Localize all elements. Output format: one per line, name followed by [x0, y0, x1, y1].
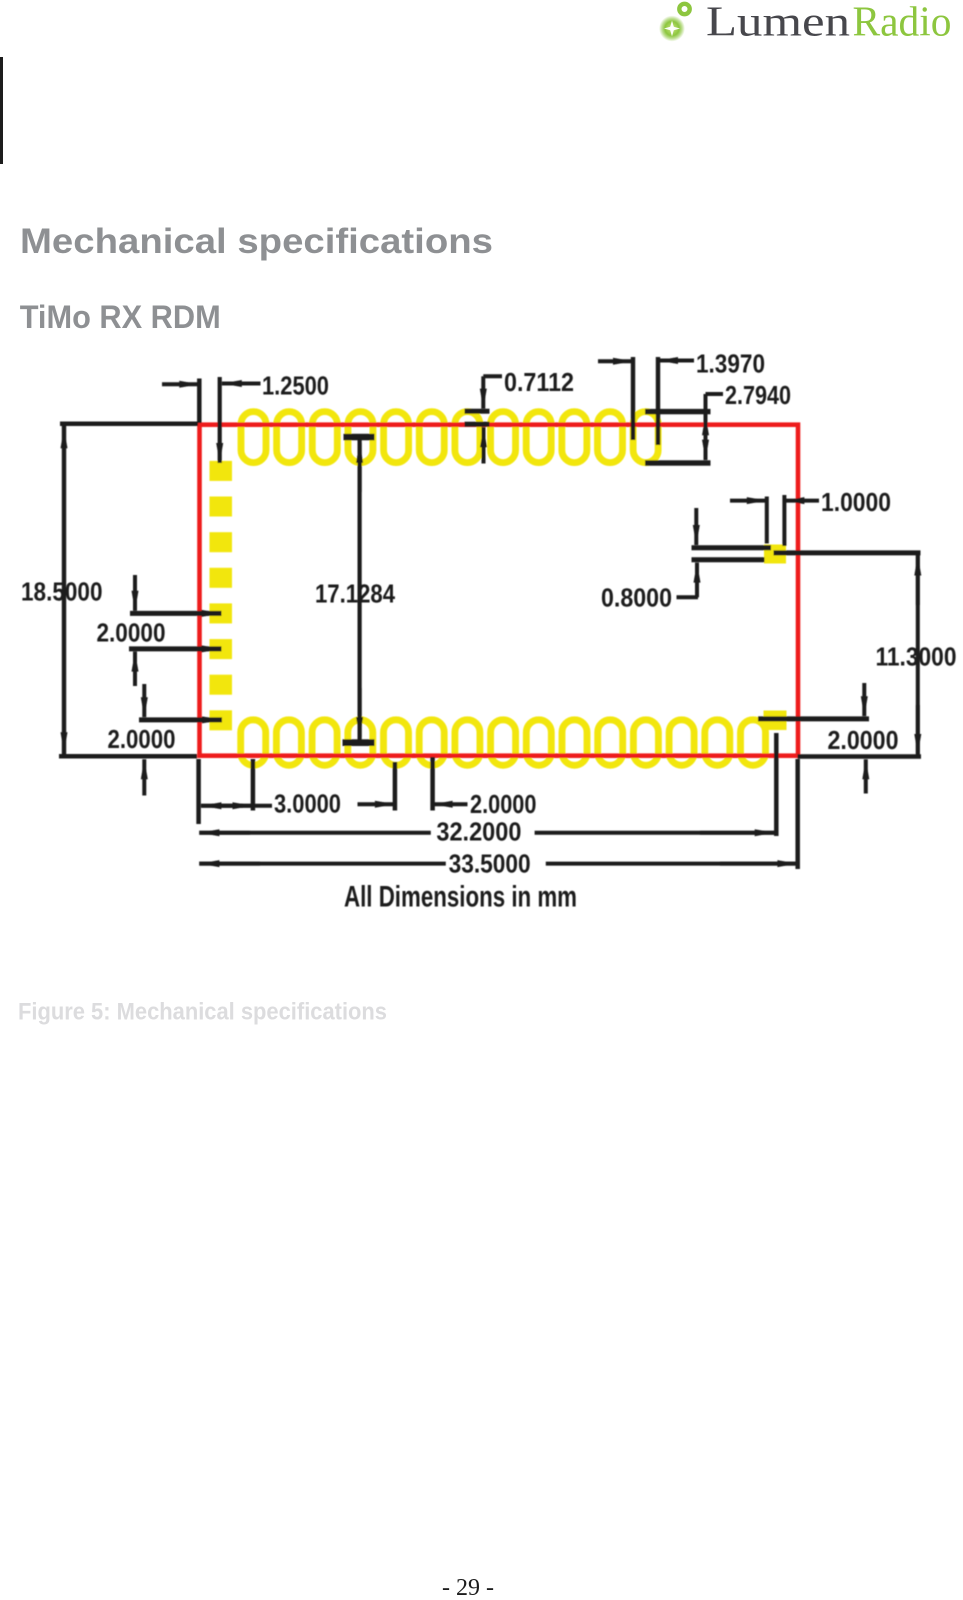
- dim 18.5000 bottom extension line: [59, 754, 197, 759]
- dim 17.1284 arrow up: [358, 443, 362, 492]
- dim 32.2000 right extension line: [774, 733, 779, 836]
- dim 17.1284 dim line: [358, 440, 362, 740]
- dim 33.5000 line left part: [199, 862, 446, 866]
- dim 11.3000 dim line: [916, 554, 920, 756]
- svg-text:Figure 5: Mechanical specifica: Figure 5: Mechanical specifications: [18, 999, 387, 1026]
- right side pad (mid): [764, 545, 786, 564]
- dim 2.7940 leader horizontal: [706, 392, 724, 396]
- svg-text:2.0000: 2.0000: [108, 724, 176, 754]
- dim 0.8000 arrow down: [694, 508, 698, 545]
- dim 33.5000 arrow right: [720, 862, 797, 866]
- dim 2.7940 bottom bar: [645, 460, 711, 465]
- dim 0.7112 upper arrow: [481, 376, 485, 408]
- dim 0.8000 leader: [677, 595, 699, 599]
- dim 2.7940 arrow up: [704, 415, 708, 436]
- dim 3.0000 arrow left: [201, 804, 243, 808]
- dim 1.3970 extension line right: [656, 357, 660, 445]
- dim 3.0000 dim line: [201, 804, 272, 808]
- dim 3.0000 extension (pad1 center): [251, 759, 256, 811]
- dim 0.8000 arrow up: [695, 563, 699, 598]
- svg-text:- 29 -: - 29 -: [442, 1575, 494, 1595]
- svg-text:2.0000: 2.0000: [97, 618, 166, 648]
- dim right 2.0000 arrow up: [864, 759, 868, 793]
- header rule fragment top-left: [0, 57, 3, 164]
- svg-text:1.3970: 1.3970: [696, 349, 765, 379]
- svg-text:18.5000: 18.5000: [21, 577, 103, 607]
- dim 2.7940 top bar: [645, 409, 711, 414]
- dim left 2.0000 lower ref line: [139, 717, 222, 722]
- dim 11.3000 top ref line: [774, 550, 921, 555]
- dim 1.3970 extension line left: [631, 357, 635, 440]
- svg-text:2.0000: 2.0000: [470, 789, 537, 819]
- dim 1.3970 right arrow: [658, 359, 694, 363]
- svg-text:2.7940: 2.7940: [725, 380, 791, 410]
- top castellated pads row: [241, 412, 658, 463]
- dim 11.3000 arrow down: [916, 705, 920, 754]
- dim 0.7112 lower arrow: [482, 427, 486, 463]
- dim 2.7940 arrow down: [704, 438, 708, 460]
- dim 2.7940 leader vertical: [704, 394, 708, 460]
- dim 1.2500 right arrow: [222, 382, 261, 386]
- dim left 2.0000 lower ref line: [129, 646, 222, 651]
- svg-text:1.0000: 1.0000: [821, 487, 891, 517]
- dim left 2.0000 arrow down: [133, 575, 137, 611]
- dim 17.1284 arrow down: [358, 688, 362, 737]
- dim 11.3000 arrow up: [916, 556, 920, 606]
- right side pad (bottom corner): [764, 711, 787, 731]
- dim 0.8000 lower reference line: [692, 557, 765, 562]
- dim 3.0000 extension (board left, down): [196, 759, 201, 824]
- svg-text:33.5000: 33.5000: [449, 849, 531, 879]
- dim 1.3970 left arrow: [598, 359, 633, 363]
- dim 1.0000 right arrow: [784, 499, 819, 503]
- logo ring dot: [679, 4, 689, 14]
- svg-text:1.2500: 1.2500: [262, 371, 329, 401]
- dim 17.1284 top T-bar: [344, 434, 375, 441]
- svg-text:32.2000: 32.2000: [436, 817, 521, 847]
- dim 33.5000 right extension line: [795, 759, 800, 869]
- dim 0.7112 top tick bar: [465, 409, 490, 414]
- dim 1.0000 left arrow: [730, 499, 767, 503]
- dim 18.5000 top extension line: [60, 421, 198, 426]
- dim 18.5000 dim line: [62, 426, 66, 755]
- board outline (red): [200, 425, 799, 756]
- svg-text:3.0000: 3.0000: [274, 789, 341, 819]
- dim bottom 2.0000 extension left: [393, 762, 398, 811]
- svg-text:2.0000: 2.0000: [828, 725, 899, 755]
- dim 1.2500 extension line (board left): [197, 379, 202, 424]
- dim right 2.0000 upper ref line: [758, 716, 869, 721]
- dim 32.2000 arrow left: [199, 831, 250, 835]
- dim right bottom shared ref line: [798, 754, 922, 759]
- dim 0.7112 leader horizontal: [483, 374, 502, 378]
- svg-text:Radio: Radio: [853, 0, 952, 46]
- dim right 2.0000 arrow down: [862, 683, 866, 716]
- svg-text:0.8000: 0.8000: [601, 583, 672, 613]
- dim 32.2000 line right part: [535, 831, 775, 835]
- svg-text:Mechanical specifications: Mechanical specifications: [20, 221, 493, 261]
- dim left lower 2.0000 arrow down: [142, 684, 146, 717]
- left side pads column: [210, 461, 233, 730]
- dim 33.5000 arrow left: [199, 862, 260, 866]
- dim 1.0000 extension line left: [765, 497, 769, 544]
- svg-text:All Dimensions in mm: All Dimensions in mm: [344, 881, 577, 914]
- dim bottom 2.0000 arrow right: [433, 802, 468, 806]
- dim 0.7112 bottom tick bar: [465, 422, 490, 427]
- logo glow circle: [659, 16, 685, 42]
- dim 33.5000 line right part: [546, 862, 797, 866]
- dim left 2.0000 arrow up: [133, 652, 137, 686]
- bottom castellated pads row: [241, 720, 766, 766]
- dim 3.0000 arrow right: [212, 804, 253, 808]
- dim 1.2500 left arrow: [162, 382, 199, 386]
- dim bottom 2.0000 extension right: [430, 757, 435, 811]
- dim 1.0000 extension line right: [782, 495, 786, 546]
- dim left lower 2.0000 arrow up: [142, 759, 146, 795]
- svg-text:0.7112: 0.7112: [504, 367, 574, 397]
- dim 32.2000 arrow right: [700, 831, 775, 835]
- dim 1.2500 extension line (pad col) with arrow: [218, 377, 222, 463]
- svg-text:TiMo RX RDM: TiMo RX RDM: [20, 299, 221, 335]
- dim left 2.0000 upper ref line: [130, 611, 222, 616]
- dim 18.5000 arrow up: [62, 428, 66, 470]
- dim 0.8000 upper reference line: [692, 545, 772, 550]
- svg-text:Lumen: Lumen: [706, 0, 850, 46]
- svg-text:11.3000: 11.3000: [876, 642, 957, 672]
- dim bottom 2.0000 arrow left: [358, 802, 395, 806]
- dim 18.5000 arrow down: [62, 710, 66, 752]
- dim 17.1284 bottom T-bar: [343, 739, 375, 746]
- svg-text:17.1284: 17.1284: [315, 579, 395, 609]
- dim 32.2000 line left part: [199, 831, 431, 835]
